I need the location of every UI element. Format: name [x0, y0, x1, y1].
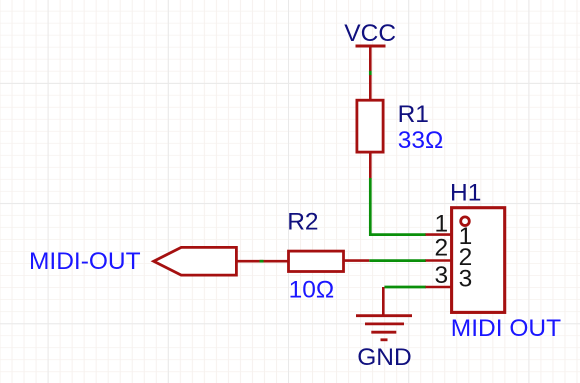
ground symbol GND: [356, 287, 412, 340]
wire VCC to R1: [369, 71, 372, 76]
power symbol VCC: [356, 46, 386, 71]
svg-text:33Ω: 33Ω: [398, 127, 444, 154]
svg-text:2: 2: [434, 235, 448, 262]
wire MIDI-OUT to R2: [260, 260, 264, 263]
svg-text:GND: GND: [357, 344, 411, 371]
svg-text:3: 3: [434, 262, 448, 289]
wire GND to H1 pin 3: [384, 286, 426, 289]
svg-text:R2: R2: [287, 208, 318, 235]
pin 1 indicator circle: [461, 217, 470, 226]
connector H1 pin 2: [426, 259, 453, 262]
wire R1 to H1 pin 1: [370, 178, 426, 235]
wire R2 to H1 pin 2: [369, 259, 426, 262]
connector H1 body: [452, 208, 505, 313]
resistor R2: [289, 251, 370, 271]
svg-text:MIDI-OUT: MIDI-OUT: [29, 248, 141, 275]
svg-text:R1: R1: [398, 101, 429, 128]
svg-text:3: 3: [459, 265, 473, 292]
svg-text:H1: H1: [450, 180, 481, 207]
connector H1 pin 1: [426, 233, 453, 236]
svg-text:MIDI OUT: MIDI OUT: [451, 315, 561, 342]
resistor R1: [357, 75, 383, 179]
port MIDI-OUT: [154, 247, 289, 275]
connector H1 pin 3: [426, 286, 453, 289]
svg-text:1: 1: [434, 211, 448, 238]
svg-text:10Ω: 10Ω: [289, 277, 335, 304]
svg-text:VCC: VCC: [344, 20, 396, 47]
